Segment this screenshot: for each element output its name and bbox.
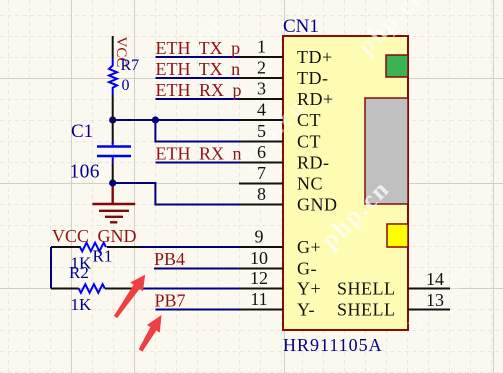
resistor R2 zigzag [79,284,105,293]
svg-text:14: 14 [426,269,444,289]
junction node C (C1 bottom / GND) [109,179,116,186]
junction node B (wire split) [152,116,159,123]
svg-text:ETH RX p: ETH RX p [156,80,242,100]
pin 4 stub [239,119,283,121]
svg-text:PB4: PB4 [154,249,185,269]
connector CN1 body [283,36,408,330]
svg-text:7: 7 [257,163,266,183]
wire ETH RX n to pin6 [156,162,240,164]
pin 9 stub [239,246,283,248]
svg-text:R1: R1 [93,247,113,266]
svg-text:ETH TX n: ETH TX n [156,59,241,79]
svg-text:PB7: PB7 [155,291,186,311]
green indicator rect [386,55,408,77]
wire PB7 to pin11 [156,309,240,311]
capacitor C1 lead black bottom [112,162,114,183]
pin stubs black [239,57,450,310]
wire PB4 to pin10 [154,268,239,270]
wire ETH TX p to pin1 [156,56,240,58]
wire vertical VCC rail left [50,247,52,289]
pin 10 stub [239,268,283,270]
svg-text:SHELL: SHELL [337,279,396,299]
svg-text:10: 10 [250,248,268,268]
pin 12 stub [239,288,283,290]
svg-text:HR911105A: HR911105A [283,335,383,355]
wire to pin8 [113,183,239,205]
svg-text:NC: NC [297,174,323,194]
pin 7 stub [239,183,283,185]
svg-text:G+: G+ [297,237,321,257]
svg-text:11: 11 [250,289,267,309]
svg-text:13: 13 [426,290,444,310]
pin 14 stub [408,288,450,290]
svg-text:1K: 1K [71,295,93,314]
svg-text:ETH TX p: ETH TX p [156,38,241,58]
pin 5 stub [239,141,283,143]
svg-text:2: 2 [257,58,266,78]
svg-text:G-: G- [297,259,317,279]
wire to pin5 [155,120,239,142]
svg-text:Y+: Y+ [297,279,321,299]
svg-text:5: 5 [257,121,266,141]
gray connector body rect [365,98,408,204]
svg-text:9: 9 [255,227,264,247]
svg-text:RD+: RD+ [297,89,334,109]
pin numbers left [250,37,444,311]
svg-text:12: 12 [250,268,268,288]
pin 8 stub [239,204,283,206]
svg-text:C1: C1 [71,121,93,142]
svg-text:R7: R7 [121,57,140,74]
svg-text:TD-: TD- [297,68,329,88]
svg-text:8: 8 [257,184,266,204]
svg-text:GND: GND [297,195,338,215]
wires navy [51,57,239,310]
svg-text:4: 4 [257,100,266,120]
svg-text:CT: CT [297,110,321,130]
wire ETH TX n to pin2 [156,77,240,79]
svg-text:106: 106 [70,162,100,183]
yellow indicator rect [387,224,408,247]
red arrow 1 (PB4) [114,275,145,319]
pin 6 stub [239,162,283,164]
svg-text:0: 0 [122,77,130,94]
svg-text:ETH RX n: ETH RX n [156,144,242,164]
pin 2 stub [239,77,283,79]
pin names [297,47,396,320]
pin 13 stub [408,309,450,311]
resistor R1 leads black [51,246,140,248]
wire node to pin4 [113,119,239,121]
wire R1 to pin9 [140,246,239,248]
pin 1 stub [239,56,283,58]
svg-text:R2: R2 [69,263,89,282]
pin 3 stub [239,98,283,100]
svg-text:Y-: Y- [297,300,315,320]
ground [92,187,135,223]
svg-text:CT: CT [297,132,321,152]
junction node A (R7/C1 top) [109,116,116,123]
wire ETH RX p to pin3 [156,98,240,100]
resistor R7 leads black [112,36,114,144]
svg-text:6: 6 [257,142,266,162]
resistor R2 leads black [51,288,138,290]
svg-text:1: 1 [257,37,266,57]
watermark php.cn instances [148,0,479,336]
resistor R1 zigzag [80,243,106,252]
pin 11 stub [239,309,283,311]
svg-text:SHELL: SHELL [337,300,396,320]
svg-text:3: 3 [257,79,266,99]
capacitor C1 [97,147,131,157]
resistor R7 zigzag [109,58,117,95]
red arrow 2 (PB7) [139,315,162,352]
svg-text:VCC GND: VCC GND [52,226,137,246]
wire R2 to pin12 [138,288,239,290]
svg-text:RD-: RD- [297,153,330,173]
svg-text:TD+: TD+ [297,47,333,67]
svg-text:CN1: CN1 [283,16,319,37]
